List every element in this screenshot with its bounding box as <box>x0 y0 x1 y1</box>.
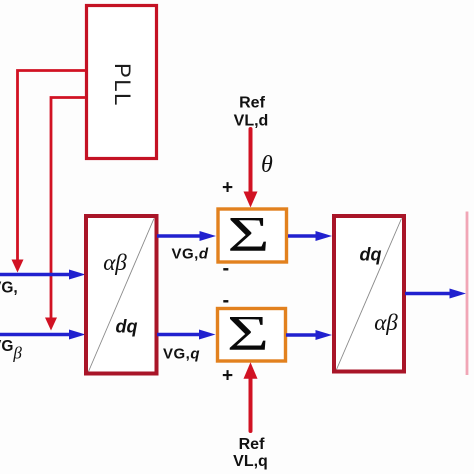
label minus S2 <box>222 290 229 312</box>
svg-text:+: + <box>222 178 233 199</box>
summer S2 <box>218 309 286 362</box>
block PLL <box>87 6 157 159</box>
diagonal U3 <box>337 219 402 370</box>
wire Ref-VLd (red, down into S1) <box>244 129 258 208</box>
svg-text:VL,d: VL,d <box>234 113 269 130</box>
block dq-to-abc transform U3 <box>334 216 404 372</box>
svg-text:VGβ: VGβ <box>0 338 22 363</box>
wire VG-q (blue, U2 to sum2) <box>157 330 216 340</box>
svg-text:Ref: Ref <box>239 436 265 453</box>
wire theta-alpha (red, PLL to first sum line) <box>18 71 87 262</box>
arrowhead theta-beta <box>45 318 57 331</box>
wire S2 to U3 (blue) <box>286 330 332 340</box>
wire S1 to U3 (blue) <box>288 231 332 241</box>
label VG-alpha <box>0 280 18 297</box>
svg-text:VG,: VG, <box>0 280 18 297</box>
diagonal U2 <box>89 219 155 372</box>
wire VG-beta input (blue) <box>0 330 86 340</box>
svg-text:dq: dq <box>360 245 382 265</box>
svg-text:dq: dq <box>116 317 138 337</box>
svg-text:PLL: PLL <box>110 63 135 107</box>
label sigma S1 <box>227 207 269 262</box>
wire output (blue, U3 to right block) <box>405 289 466 299</box>
svg-text:θ: θ <box>261 152 273 178</box>
edge of cropped right block (pink) <box>466 212 469 376</box>
label minus S1 <box>222 258 229 280</box>
label VG-q <box>163 346 200 363</box>
svg-text:-: - <box>222 258 229 280</box>
svg-text:Σ: Σ <box>227 306 269 361</box>
svg-text:+: + <box>222 366 233 387</box>
label Ref bottom <box>239 436 265 453</box>
label sigma S2 <box>227 306 269 361</box>
svg-text:VL,q: VL,q <box>233 453 268 470</box>
label theta <box>261 152 273 178</box>
summer S1 <box>218 209 287 262</box>
svg-text:VG,q: VG,q <box>163 346 200 363</box>
label VG-beta <box>0 338 22 363</box>
svg-text:αβ: αβ <box>374 310 398 335</box>
label VL,q <box>233 453 268 470</box>
label PLL <box>110 63 135 107</box>
svg-text:Ref: Ref <box>239 95 265 112</box>
wire VG-d (blue, U2 to sum1) <box>157 231 216 241</box>
wire theta-beta (red, PLL to second sum line) <box>51 98 86 320</box>
svg-text:Σ: Σ <box>227 207 269 262</box>
label dq U2 <box>116 317 138 337</box>
label VL,d <box>234 113 269 130</box>
block abc-to-dq transform U2 <box>86 216 157 374</box>
label VG-d <box>172 246 209 263</box>
label plus S2 <box>222 366 233 387</box>
label alpha-beta U3 <box>374 310 398 335</box>
label Ref top <box>239 95 265 112</box>
label alpha-beta U2 <box>103 250 127 275</box>
label plus S1 <box>222 178 233 199</box>
svg-text:αβ: αβ <box>103 250 127 275</box>
svg-text:VG,d: VG,d <box>172 246 209 263</box>
svg-text:-: - <box>222 290 229 312</box>
label dq U3 <box>360 245 382 265</box>
arrowhead theta-alpha <box>12 260 24 273</box>
wire Ref-VLq (red, up into S2) <box>244 362 258 431</box>
wire VG-alpha input (blue) <box>0 270 86 280</box>
